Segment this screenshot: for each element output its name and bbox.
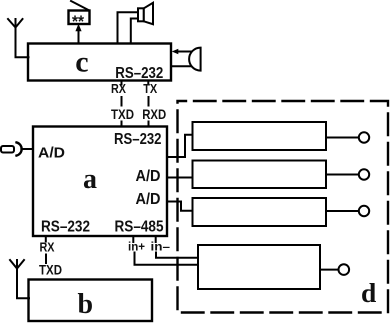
dashed link RX-TXD bottom <box>45 255 47 264</box>
svg-text:RS–232: RS–232 <box>115 65 163 82</box>
stub box a to in- <box>155 236 157 242</box>
stub TXD to box a <box>121 122 123 127</box>
svg-text:RS–485: RS–485 <box>115 219 164 236</box>
svg-text:A/D: A/D <box>38 145 65 162</box>
svg-text:RXD: RXD <box>142 106 166 122</box>
svg-text:b: b <box>78 289 94 320</box>
box b (radio modem 2) <box>29 280 153 322</box>
svg-text:TXD: TXD <box>39 262 62 278</box>
module rect 4 <box>198 245 320 289</box>
enclosure d (dashed) <box>178 101 389 313</box>
wire module2 to terminal <box>326 174 359 176</box>
loudspeaker driver <box>138 8 144 21</box>
wire speaker lower <box>131 19 138 44</box>
receiver unit box <box>69 11 90 25</box>
arrowhead up <box>75 24 81 32</box>
svg-text:in–: in– <box>151 242 171 254</box>
antenna A2 (bottom-left) <box>10 260 29 298</box>
module rect 3 <box>193 198 327 226</box>
wire in+ to module 4 <box>135 253 199 265</box>
svg-text:RX: RX <box>111 81 126 96</box>
wire module1 to terminal <box>326 137 359 139</box>
svg-text:RS–232: RS–232 <box>41 219 90 236</box>
box a (controller) <box>33 127 167 237</box>
svg-text:d: d <box>361 277 376 308</box>
terminal circle 1 <box>359 132 369 142</box>
terminal circle 2 <box>359 169 369 179</box>
microphone wire upper with arrow <box>178 51 192 53</box>
stub box a to RX bottom <box>45 236 47 242</box>
svg-text:TX: TX <box>143 81 157 96</box>
module rect 1 <box>193 122 327 150</box>
svg-text:A/D: A/D <box>136 168 161 185</box>
dashed link TX-RXD <box>148 97 150 106</box>
receiver unit whip antenna <box>71 1 89 10</box>
sensor probe body <box>1 146 14 153</box>
terminal circle 3 <box>359 206 369 216</box>
wire W2 box a to module 2 <box>167 177 193 179</box>
svg-text:in+: in+ <box>128 242 145 254</box>
port stub TX under box c <box>147 81 149 85</box>
microphone body <box>189 48 200 71</box>
arrowhead left <box>172 49 179 54</box>
loudspeaker horn <box>144 3 153 24</box>
module rect 2 <box>193 161 327 189</box>
dashed link RX-TXD <box>121 97 123 106</box>
box c (radio modem) <box>28 44 171 81</box>
svg-text:TXD: TXD <box>111 106 134 122</box>
terminal circle 4 <box>339 264 350 275</box>
stub RXD to box a <box>148 122 150 127</box>
wire W1 box a to module 1 <box>167 135 193 157</box>
wire in- to module 4 <box>156 253 198 258</box>
arrow from box c to receiver <box>78 31 80 44</box>
wire probe to box a <box>21 148 33 150</box>
wire module3 to terminal <box>326 210 359 212</box>
wire W3 box a to module 3 <box>167 202 193 211</box>
svg-text:c: c <box>75 46 88 79</box>
stub box a to in+ <box>132 236 134 242</box>
svg-text:a: a <box>83 164 97 195</box>
port stub RX under box c <box>121 81 123 85</box>
svg-text:RS–232: RS–232 <box>114 131 162 148</box>
sensor probe arc <box>17 142 22 155</box>
wire module4 to terminal <box>320 269 338 271</box>
microphone wire lower <box>171 65 193 67</box>
svg-text:A/D: A/D <box>136 191 161 208</box>
wire speaker upper <box>118 12 139 43</box>
svg-text:RX: RX <box>40 240 55 255</box>
antenna A1 (top-left) <box>8 19 29 57</box>
